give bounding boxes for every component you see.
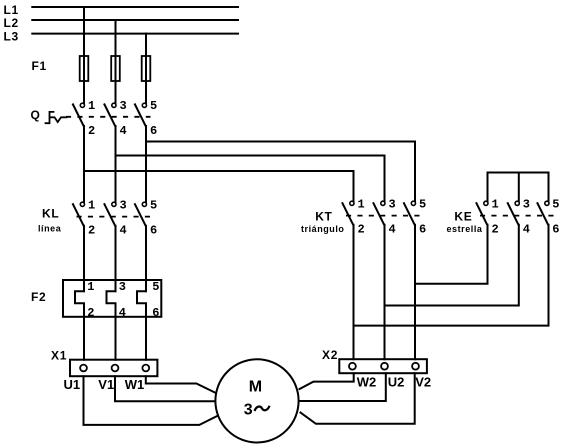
svg-text:L1: L1 [4,3,19,17]
overload relay F2 box [63,280,161,317]
wire Q pole2 out down to KL pole2 [115,126,117,202]
label U1 [64,377,81,392]
label triángulo [301,224,344,234]
svg-text:X2: X2 [322,348,338,362]
wire KE pole2 out to U2 column [385,225,519,306]
wire motor to X2-W2 [300,373,354,389]
wire KE pole1 out to V2 column [415,225,488,284]
svg-text:2: 2 [88,124,95,138]
svg-text:3: 3 [389,198,396,212]
wire branch phase1 to KT pole1 (horizontal y171) [84,171,354,201]
pin number 5 (F2) [152,280,159,294]
terminal X2-W2 [349,363,356,370]
wire KE star-point bar [488,173,549,202]
label V2 [415,374,431,389]
label F1 [32,59,47,73]
svg-text:1: 1 [88,99,95,113]
wire KT pole3 down to X2-V2 [414,225,416,359]
label W1 [125,377,145,392]
pin number 6 (Q) [150,124,157,138]
svg-text:5: 5 [152,280,159,294]
svg-text:2: 2 [358,223,365,237]
label estrella [447,224,483,234]
pin number 3 (KE) [523,198,530,212]
wire motor to X2-V2 [301,373,415,424]
fuse F1 pole 2 [111,56,120,81]
switch Q pole 1 contact (1-2) [73,103,85,127]
wire V1 to motor [115,376,216,401]
svg-text:1: 1 [358,198,365,212]
svg-text:W1: W1 [125,377,145,392]
svg-text:V1: V1 [98,377,114,392]
wire motor to X2-U2 [301,373,386,401]
terminal X2-U2 [381,363,388,370]
pin number 1 (F2) [87,280,94,294]
svg-text:KT: KT [315,209,332,223]
wire branch phase3 to KT pole3 (horizontal y141.5) [146,142,415,202]
fuse F1 pole 1 [80,56,89,81]
pin number 2 (KL) [88,224,95,238]
svg-text:1: 1 [87,280,94,294]
wire KT pole2 down to X2-U2 [384,225,386,359]
wire branch phase2 to KT pole2 (horizontal y155.5) [116,156,385,202]
svg-text:KE: KE [454,209,472,223]
wire KT pole1 down to X2-W2 [353,225,355,359]
svg-text:3: 3 [523,198,530,212]
contactor KT pole 3 contact (5-6) [404,201,416,226]
bus line L2 [32,19,238,21]
svg-text:6: 6 [152,306,159,320]
pin number 5 (KT) [419,198,426,212]
label KE [454,209,472,223]
wire L2 drop to fuse/Q pole 2 [115,20,117,103]
svg-text:línea: línea [38,224,62,234]
label KT [315,209,332,223]
label L3 [4,30,19,44]
contactor KL pole 1 contact (1-2) [73,202,85,227]
label línea [38,224,62,234]
contactor KT pole 2 contact (3-4) [373,201,385,226]
pin number 4 (F2) [119,306,126,320]
overload F2 heater phase 2 [107,291,116,360]
contactor KE pole 2 contact (3-4) [507,201,519,226]
wire L1 drop to fuse/Q pole 1 [83,7,85,103]
svg-text:4: 4 [523,223,530,237]
overload F2 heater phase 3 [137,291,146,360]
bus line L1 [32,6,238,8]
pin number 1 (KL) [88,199,95,213]
pin number 1 (KT) [358,198,365,212]
wire Q pole3 out down to KL pole3 [145,126,147,202]
pin number 4 (KE) [523,223,530,237]
contactor KL mechanical link (dashed) [77,216,151,218]
pin number 2 (F2) [87,306,94,320]
switch Q manual actuator [46,112,67,123]
svg-text:1: 1 [88,199,95,213]
svg-text:3: 3 [119,280,126,294]
pin number 3 (KT) [389,198,396,212]
pin number 4 (KL) [120,224,127,238]
label L2 [4,16,19,30]
label KL [42,207,59,221]
svg-text:6: 6 [150,224,157,238]
label V1 [98,377,114,392]
wire L3 drop to fuse/Q pole 3 [145,34,147,104]
wire Q pole1 out down to KL pole1 [83,126,85,202]
svg-text:5: 5 [150,199,157,213]
svg-text:5: 5 [419,198,426,212]
pin number 1 (Q) [88,99,95,113]
svg-text:3: 3 [120,199,127,213]
label W2 [357,374,377,389]
svg-text:4: 4 [119,306,126,320]
pin number 4 (Q) [120,124,127,138]
contactor KL pole 2 contact (3-4) [104,202,116,227]
wire KL pole1 out down to F2 [83,226,85,291]
svg-text:3: 3 [244,401,253,418]
overload F2 heater phase 1 [75,291,84,360]
svg-text:W2: W2 [357,374,377,389]
terminal block X1 [70,360,157,377]
svg-text:U1: U1 [64,377,81,392]
pin number 3 (F2) [119,280,126,294]
svg-text:triángulo: triángulo [301,224,344,234]
pin number 3 (KL) [120,199,127,213]
wire KL pole2 out down to F2 [115,226,117,291]
svg-text:2: 2 [87,306,94,320]
pin number 4 (KT) [389,223,396,237]
wire KL pole3 out down to F2 [145,226,147,291]
svg-text:V2: V2 [415,374,431,389]
svg-text:2: 2 [492,223,499,237]
terminal X1-W1 [142,365,149,372]
switch Q pole 2 contact (3-4) [104,103,116,127]
contactor KE mechanical link (dashed) [480,215,554,217]
wire W1 to motor [146,376,216,393]
terminal X1-U1 [80,365,87,372]
svg-text:F1: F1 [32,59,47,73]
terminal X2-V2 [412,363,419,370]
svg-text:1: 1 [492,198,499,212]
svg-text:4: 4 [389,223,396,237]
svg-text:F2: F2 [31,290,46,304]
svg-text:KL: KL [42,207,59,221]
label U2 [388,374,405,389]
wire KE pole3 out to W2 column [354,225,549,326]
svg-text:4: 4 [120,124,127,138]
pin number 5 (KE) [552,198,559,212]
svg-text:5: 5 [552,198,559,212]
svg-text:2: 2 [88,224,95,238]
contactor KE pole 1 contact (1-2) [476,201,488,226]
svg-text:L3: L3 [4,30,19,44]
wire U1 to motor [84,376,217,425]
svg-text:5: 5 [150,99,157,113]
label L1 [4,3,19,17]
svg-text:6: 6 [150,124,157,138]
label F2 [31,290,46,304]
wire KE star-point middle drop [518,173,520,202]
terminal block X2 [339,359,427,373]
svg-text:X1: X1 [51,349,67,363]
pin number 6 (KE) [552,223,559,237]
label Q [31,108,41,122]
label X2 [322,348,338,362]
pin number 5 (KL) [150,199,157,213]
bus line L3 [32,33,238,35]
svg-text:estrella: estrella [447,224,483,234]
contactor KT mechanical link (dashed) [346,215,420,217]
pin number 2 (Q) [88,124,95,138]
contactor KE pole 3 contact (5-6) [537,201,549,226]
svg-text:4: 4 [120,224,127,238]
pin number 6 (KL) [150,224,157,238]
svg-text:3: 3 [120,99,127,113]
fuse F1 pole 3 [142,56,151,81]
motor M1 [215,359,298,442]
switch Q mechanical link (dashed) [66,116,151,118]
pin number 6 (F2) [152,306,159,320]
switch Q pole 3 contact (5-6) [135,103,147,127]
svg-text:M: M [249,379,262,396]
contactor KL pole 3 contact (5-6) [135,202,147,227]
svg-text:L2: L2 [4,16,19,30]
label X1 [51,349,67,363]
pin number 5 (Q) [150,99,157,113]
svg-text:6: 6 [419,223,426,237]
pin number 6 (KT) [419,223,426,237]
terminal X1-V1 [112,365,119,372]
contactor KT pole 1 contact (1-2) [342,201,354,226]
svg-text:U2: U2 [388,374,405,389]
svg-text:Q: Q [31,108,41,122]
pin number 2 (KT) [358,223,365,237]
pin number 2 (KE) [492,223,499,237]
pin number 1 (KE) [492,198,499,212]
svg-text:6: 6 [552,223,559,237]
pin number 3 (Q) [120,99,127,113]
